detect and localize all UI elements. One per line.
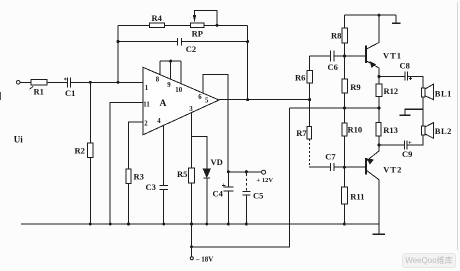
resistor R1 [31,80,47,86]
wire pin 6 loop to +12V [203,75,228,172]
node C5 top [245,170,248,173]
node VT1 emitter [377,75,380,78]
node rail R11 [343,223,346,226]
node rail VD [205,223,208,226]
svg-text:RP: RP [192,29,203,39]
node R11 base [343,166,346,169]
speaker BL1 [421,88,425,97]
svg-text:9: 9 [167,82,171,89]
edge artifact left [0,92,2,100]
capacitor C8 [405,71,407,80]
terminal top supply [392,15,400,23]
svg-text:VT1: VT1 [383,51,402,61]
terminal +12V [262,170,266,174]
svg-text:C5: C5 [253,191,263,201]
wire R6 column [309,56,311,100]
svg-text:1: 1 [145,85,149,92]
wire RP wiper loop [195,11,218,26]
node bias R10 [343,107,346,110]
wire R5 to ground [191,183,193,224]
capacitor C9 [405,141,407,150]
svg-text:C7: C7 [325,152,336,162]
resistor R11 [343,167,345,224]
C4 plus [222,184,225,187]
svg-text:R13: R13 [383,125,398,135]
node output R6R7 [308,98,311,101]
wire pin 4 to C3 [163,125,165,185]
+12V rail [228,171,262,173]
resistor R3 [126,169,131,184]
node RP wiper junction [216,24,219,27]
node pin9 bar [169,60,172,63]
wire between speakers [422,97,424,126]
node rail R5 [190,222,193,225]
wire R1 to C1 [47,81,67,83]
capacitor C5 [242,192,250,225]
svg-text:8: 8 [156,77,160,84]
wire feedback left vertical [117,25,119,82]
node input junction R2 [89,81,92,84]
svg-text:2: 2 [144,121,148,128]
svg-text:4: 4 [157,118,161,125]
input terminal [16,81,20,85]
capacitor C7 [330,163,334,171]
C8 plus [409,77,412,80]
ground rail [21,223,379,225]
node R8 base [343,55,346,58]
svg-text:R10: R10 [348,125,363,135]
wire input [20,81,31,83]
node feedback input [117,81,120,84]
transistor VT2 [365,158,367,174]
transistor VT1 [365,45,367,63]
node rail R2 [89,223,92,226]
svg-text:R5: R5 [177,169,187,179]
wire R2 column [89,82,91,224]
wire VT2 emitter line [379,135,423,145]
resistor R8 [344,15,346,56]
C9 plus [408,141,411,144]
R1 tick [30,86,34,89]
wire output [219,99,310,101]
svg-text:R4: R4 [152,13,163,23]
capacitor C2 [118,38,248,46]
terminal -18V [190,257,193,260]
node collector top [378,14,381,17]
svg-text:BL2: BL2 [435,126,452,136]
svg-text:R12: R12 [384,86,399,96]
node feedback-C2 right [246,40,249,43]
svg-text:R3: R3 [134,172,144,182]
resistor R2 [88,143,94,158]
node output junction [246,98,249,101]
resistor R10 [344,108,346,167]
wire pin 2 [129,122,144,169]
svg-text:BL1: BL1 [435,88,452,98]
svg-text:R2: R2 [75,146,85,156]
svg-text:R6: R6 [295,73,305,83]
resistor R13 [378,108,380,145]
svg-text:C3: C3 [146,182,156,192]
svg-text:11: 11 [143,102,150,109]
resistor R9 [344,56,346,108]
wire C5 dashed [245,174,247,192]
svg-text:A: A [160,99,167,109]
svg-text:R8: R8 [331,31,341,41]
wire feedback right vertical [247,25,249,99]
VT1 base line [310,55,366,57]
bias rail [289,107,379,109]
op-amp U1 triangle [143,67,219,135]
capacitor C4 [224,172,234,224]
RP wiper arrow [193,15,196,23]
svg-text:R9: R9 [350,82,360,92]
node feedback-C2 left [117,40,120,43]
wire speaker common stub [400,109,423,115]
node rail pin11 [109,223,112,226]
svg-text:6: 6 [198,94,202,101]
capacitor C6 [330,51,334,62]
wire R7 column [309,100,311,127]
border right [456,2,458,250]
svg-text:C2: C2 [186,44,196,54]
svg-text:C4: C4 [213,189,224,199]
wire -18V drop [191,224,193,257]
speaker BL2 [421,126,425,135]
resistor R7 [307,126,312,139]
svg-text:3: 3 [189,106,193,113]
resistor R6 [307,70,312,83]
wire pin 3 column [191,113,193,168]
svg-text:10: 10 [175,87,182,94]
capacitor C1 [68,78,144,88]
svg-text:VT2: VT2 [383,165,402,175]
node bias R13 [378,107,381,110]
svg-text:R1: R1 [34,87,44,97]
resistor R5 [189,168,195,183]
svg-text:+ 12V: + 12V [257,177,274,184]
wire pin 11 [110,103,143,224]
diode VD [203,169,210,177]
resistor R12 [378,77,380,108]
svg-text:C1: C1 [65,88,75,98]
watermark WeeQoo [402,253,456,268]
svg-text:– 18V: – 18V [195,256,213,264]
VT2 base line [309,166,366,168]
node C4 top [227,170,230,173]
svg-text:VD: VD [211,157,223,167]
terminal bottom supply [372,224,385,234]
svg-text:R11: R11 [350,192,364,202]
resistor R4 [149,23,164,27]
node VT2 emitter [377,143,380,146]
node -18V junction [190,245,193,248]
svg-text:5: 5 [205,97,209,104]
svg-text:C8: C8 [400,61,410,71]
node rail C3 [162,223,165,226]
C1 plus [64,78,67,81]
svg-text:C9: C9 [402,149,412,159]
wire R7 to C7 line [308,139,310,167]
wire pin3 branch to VD [192,137,207,169]
svg-text:R7: R7 [296,128,307,138]
wire R3 to ground [128,184,130,224]
node rail R3 [127,223,130,226]
wire pins 8 9 10 bar [160,61,181,83]
wire -18V jog to bias column [192,108,290,247]
wire top feedback rail [118,24,248,26]
svg-text:Ui: Ui [14,135,23,145]
potentiometer RP [190,23,203,28]
svg-text:C6: C6 [328,62,338,72]
node rail C4 [227,223,230,226]
top rail [345,14,396,16]
wire emitter node line [379,77,423,88]
capacitor C3 [159,186,168,225]
node rail C5 [245,223,248,226]
